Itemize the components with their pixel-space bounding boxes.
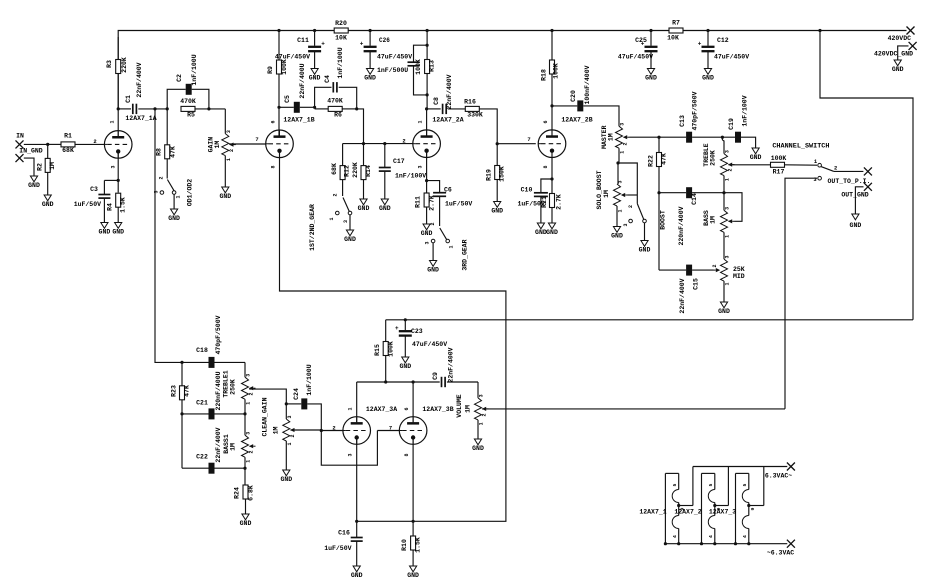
svg-text:8: 8 (404, 453, 410, 456)
op-amp 12AX7_3B triode U3B (399, 406, 453, 444)
potentiometer TREBLE 250K (703, 137, 735, 181)
capacitor C4 (315, 47, 357, 109)
svg-text:C5: C5 (284, 95, 291, 103)
svg-text:3: 3 (343, 220, 349, 223)
svg-text:47uF/450V: 47uF/450V (412, 341, 447, 348)
svg-text:22nF/400U: 22nF/400U (299, 63, 306, 98)
svg-text:220nF/400V: 220nF/400V (678, 206, 685, 245)
svg-text:7: 7 (527, 136, 530, 143)
pin 2 of 12AX7_2A (402, 138, 405, 145)
svg-text:R16: R16 (464, 99, 476, 106)
svg-text:GND: GND (535, 229, 547, 236)
pin 2 of 12AX7_1A (93, 138, 96, 145)
svg-text:1nF/100V: 1nF/100V (395, 173, 426, 180)
op-amp 12AX7_3A triode U3A (343, 406, 397, 444)
node plate 1A / C1 (117, 107, 120, 110)
svg-text:GND: GND (351, 572, 363, 579)
svg-text:1.5K: 1.5K (120, 197, 127, 213)
node C1 out to tone path (153, 107, 156, 110)
svg-text:GND: GND (364, 75, 376, 82)
svg-text:CHANNEL_SWITCH: CHANNEL_SWITCH (772, 143, 829, 151)
svg-text:C19: C19 (728, 118, 735, 130)
svg-text:1nF/100U: 1nF/100U (306, 364, 313, 395)
ground IN_GND (28, 176, 40, 189)
svg-text:R10: R10 (401, 539, 408, 551)
svg-text:1: 1 (725, 282, 731, 285)
svg-text:1: 1 (725, 235, 731, 238)
svg-text:2: 2 (712, 264, 718, 267)
capacitor C12 electrolytic (698, 29, 750, 69)
svg-text:2: 2 (834, 165, 837, 172)
svg-text:R20: R20 (335, 20, 347, 27)
svg-text:GND: GND (358, 205, 370, 212)
capacitor C10 (518, 179, 553, 223)
svg-text:4: 4 (672, 535, 678, 538)
svg-text:2: 2 (249, 392, 255, 395)
svg-text:R3: R3 (106, 60, 113, 68)
capacitor C20 (552, 65, 619, 126)
svg-text:C26: C26 (379, 37, 390, 44)
svg-text:C2: C2 (176, 74, 183, 82)
pin 6 of 12AX7_3B (404, 407, 410, 410)
svg-text:+: + (698, 40, 702, 47)
svg-text:1M: 1M (273, 427, 280, 435)
label 12AX7_2 (674, 509, 701, 516)
wire B+ bus 420VDC rail (118, 31, 906, 109)
resistor R24 (234, 485, 255, 514)
svg-text:GND: GND (750, 154, 762, 161)
svg-text:+: + (395, 325, 399, 332)
svg-text:1: 1 (348, 407, 354, 410)
svg-text:2: 2 (290, 434, 296, 437)
svg-text:1nF/100U: 1nF/100U (337, 47, 344, 78)
wire heater top bus 6.3VAC (693, 467, 787, 506)
svg-text:R24: R24 (234, 487, 241, 499)
label BOOST (660, 210, 667, 230)
capacitor C6 (427, 181, 473, 226)
svg-text:47K: 47K (170, 146, 177, 158)
svg-text:12AX7_3A: 12AX7_3A (366, 406, 397, 413)
ground below CLEAN_GAIN (280, 470, 292, 483)
capacitor C1 (118, 62, 167, 114)
ground below R11 (421, 224, 433, 237)
svg-text:1uF/50V: 1uF/50V (324, 545, 351, 552)
svg-text:100K: 100K (281, 59, 288, 75)
svg-text:47K: 47K (184, 385, 191, 397)
svg-text:R14: R14 (365, 165, 372, 177)
svg-text:5: 5 (708, 483, 714, 486)
wire heater bottom bus (665, 543, 787, 545)
resistor R5 (180, 98, 225, 119)
resistor R2 (37, 144, 57, 195)
node C2/R5/R8 left (166, 107, 169, 110)
capacitor 1nF/500V parallel R13 (377, 45, 427, 95)
svg-text:R6: R6 (334, 112, 342, 119)
svg-text:GND: GND (280, 476, 292, 483)
svg-text:C16: C16 (338, 530, 350, 537)
wire MASTER pin1 to SOLO_BOOST (616, 148, 619, 164)
svg-text:10K: 10K (335, 35, 347, 42)
svg-text:3: 3 (425, 241, 431, 244)
svg-text:2: 2 (402, 138, 405, 145)
wire cathode 3A (355, 438, 358, 538)
wire GAIN wiper to 1B grid (229, 143, 265, 145)
ground below R24 (240, 514, 252, 527)
svg-text:BOOST: BOOST (660, 210, 667, 230)
svg-text:2.7K: 2.7K (429, 195, 436, 211)
wire feed from C1 node down (155, 109, 245, 364)
svg-text:GND: GND (344, 236, 356, 243)
svg-text:47uF/450V: 47uF/450V (618, 54, 653, 61)
heater filament 12AX7_2 (700, 473, 729, 545)
pin 1 of 12AX7_1A (110, 120, 116, 123)
svg-text:2.7K: 2.7K (556, 194, 563, 210)
svg-text:1ST/2ND_GEAR: 1ST/2ND_GEAR (309, 204, 316, 251)
capacitor C11 electrolytic (275, 29, 325, 69)
svg-text:R12: R12 (344, 165, 351, 177)
svg-text:GND: GND (421, 230, 433, 237)
ground below R14 (358, 199, 370, 212)
node plate 2B / C20 (550, 104, 553, 107)
svg-text:3: 3 (623, 223, 629, 226)
pin 2 of 12AX7_3A (332, 425, 335, 432)
svg-text:OD1/OD2: OD1/OD2 (187, 179, 194, 206)
svg-text:6: 6 (271, 120, 277, 123)
wire B+ line y320 (386, 318, 913, 321)
svg-text:25K: 25K (733, 266, 745, 273)
node plate 1B / C5 (277, 106, 280, 109)
svg-text:GND: GND (28, 182, 40, 189)
resistor R7 (667, 20, 683, 42)
svg-text:R21: R21 (541, 196, 548, 208)
svg-text:GND: GND (309, 75, 321, 82)
ground 420VDC_GND (892, 60, 904, 73)
wire TREBLE1 pin1 / C21 line (180, 399, 246, 415)
ground below OD1/OD2 switch (168, 209, 180, 222)
svg-text:C14: C14 (691, 193, 698, 205)
wire TREBLE1 wiper to CLEAN_GAIN (249, 389, 288, 405)
resistor R23 (171, 362, 191, 414)
ground below C19 (750, 148, 762, 161)
svg-text:2: 2 (482, 413, 488, 416)
svg-text:R1: R1 (64, 133, 72, 140)
svg-text:1M: 1M (214, 141, 221, 149)
potentiometer CLEAN_GAIN 1M (262, 397, 297, 445)
svg-text:2: 2 (333, 193, 339, 196)
capacitor C13 (679, 91, 699, 142)
ground below C23 (399, 357, 411, 370)
svg-text:C4: C4 (324, 75, 331, 83)
capacitor C17 (379, 144, 427, 199)
svg-text:22nF/400V: 22nF/400V (215, 427, 222, 462)
svg-text:GND: GND (639, 247, 651, 254)
heater filament 12AX7_1 (664, 473, 693, 545)
svg-text:12AX7_2A: 12AX7_2A (432, 117, 463, 124)
svg-text:1: 1 (418, 120, 424, 123)
resistor R10 (401, 536, 422, 566)
op-amp 12AX7_2B triode U2B (538, 117, 592, 158)
ground below SOLO_BOOST (611, 227, 623, 240)
label 12AX7_3 (709, 509, 736, 516)
terminal 420VDC (888, 27, 915, 43)
wire SOLO_BOOST wiper loop (618, 163, 637, 204)
svg-text:R22: R22 (648, 155, 655, 167)
node R16 out / R19 / 2B grid (496, 142, 536, 145)
svg-text:250K: 250K (230, 379, 237, 395)
svg-text:MID: MID (733, 273, 745, 280)
svg-text:47uF/450V: 47uF/450V (714, 54, 749, 61)
svg-text:3RD_GEAR: 3RD_GEAR (462, 239, 469, 270)
svg-text:5: 5 (672, 483, 678, 486)
wire BASS1 pin1 to R24 (244, 457, 246, 485)
svg-text:GND: GND (718, 308, 730, 315)
resistor R6 (315, 98, 357, 119)
capacitor C8 (427, 74, 465, 114)
svg-text:220K: 220K (352, 162, 359, 178)
capacitor C24 (286, 364, 321, 430)
svg-text:~6.3VAC: ~6.3VAC (767, 550, 794, 557)
svg-text:100K: 100K (553, 63, 560, 79)
svg-text:C15: C15 (693, 278, 700, 290)
svg-text:OUT_TO_P.I.: OUT_TO_P.I. (828, 178, 871, 185)
capacitor C26 electrolytic (360, 29, 412, 69)
svg-text:C12: C12 (717, 37, 729, 44)
svg-text:SOLO_BOOST: SOLO_BOOST (596, 170, 603, 209)
svg-text:GND: GND (472, 445, 484, 452)
svg-text:GND: GND (99, 229, 111, 236)
svg-text:1: 1 (329, 217, 335, 220)
svg-text:GND: GND (407, 572, 419, 579)
wire cathode 3B (412, 438, 415, 537)
pin 3 of 12AX7_3A (348, 453, 354, 456)
svg-text:3: 3 (287, 415, 293, 418)
pin 1 of 12AX7_3A (348, 407, 354, 410)
svg-text:12AX7_2: 12AX7_2 (674, 509, 701, 516)
svg-text:470K: 470K (180, 98, 196, 105)
svg-text:1: 1 (246, 402, 252, 405)
svg-text:C21: C21 (196, 400, 208, 407)
capacitor C2 (167, 54, 209, 109)
svg-text:100K: 100K (388, 341, 395, 357)
resistor R19 (486, 144, 506, 202)
svg-text:TREBLE1: TREBLE1 (223, 370, 230, 397)
pin 6 of 12AX7_2B (543, 120, 549, 123)
svg-text:330K: 330K (467, 112, 483, 119)
resistor R4 (107, 193, 127, 222)
ground below C3 (99, 223, 111, 236)
svg-text:3: 3 (246, 374, 252, 377)
capacitor C5 (279, 63, 315, 112)
ground below R4 (112, 223, 124, 236)
svg-text:6: 6 (543, 120, 549, 123)
switch OD1/OD2 (154, 176, 194, 209)
svg-text:R23: R23 (171, 385, 178, 397)
resistor R22 (648, 137, 668, 193)
ground below C10 (535, 223, 547, 236)
wire B+ right drop to 3rd stage (818, 29, 913, 320)
svg-text:1: 1 (479, 422, 485, 425)
terminal 420VDC_GND (874, 42, 917, 60)
wire plate 3B (412, 382, 414, 422)
resistor R21 (541, 194, 563, 224)
svg-text:4: 4 (708, 535, 714, 538)
pin 3 of 12AX7_2A (418, 165, 424, 168)
ground below 3RD_GEAR switch (427, 261, 439, 274)
switch 1ST/2ND_GEAR (309, 193, 352, 250)
svg-text:12AX7_1: 12AX7_1 (639, 509, 666, 516)
svg-text:22nF/400V: 22nF/400V (136, 62, 143, 97)
wire TREBLE wiper to R17 (729, 164, 771, 166)
wire grid line of 2A (343, 142, 413, 145)
svg-text:2: 2 (430, 222, 436, 225)
svg-text:GND: GND (168, 215, 180, 222)
svg-text:22nF/400V: 22nF/400V (446, 74, 453, 109)
wire CLEAN_GAIN wiper to grids (291, 429, 322, 431)
ground below R10 (407, 566, 419, 579)
svg-text:1M: 1M (465, 405, 472, 413)
wire MID pin1 to ground (723, 281, 725, 302)
svg-text:C18: C18 (196, 347, 208, 354)
potentiometer BASS1 1M (223, 414, 256, 463)
resistor R17 (771, 155, 818, 176)
wire R6 node down to grid line 2A (357, 109, 364, 144)
svg-text:1: 1 (620, 151, 626, 154)
svg-text:R9: R9 (267, 66, 274, 74)
terminal IN_GND (16, 148, 43, 176)
svg-text:GND: GND (427, 267, 439, 274)
svg-text:2: 2 (728, 168, 734, 171)
svg-text:GND: GND (702, 75, 714, 82)
capacitor C16 (324, 530, 363, 567)
svg-text:R2: R2 (37, 163, 44, 171)
resistor R12 (331, 144, 351, 196)
pin 8 of 12AX7_3B (404, 453, 410, 456)
svg-text:3: 3 (348, 453, 354, 456)
svg-text:2: 2 (628, 205, 634, 208)
svg-text:1M: 1M (603, 190, 610, 198)
ground below 1ST/2ND_GEAR switch (344, 230, 356, 243)
potentiometer BASS 1M (703, 207, 735, 238)
svg-text:R13: R13 (429, 60, 436, 72)
svg-text:1: 1 (618, 209, 624, 212)
wire cathode 2A (425, 151, 428, 193)
switch 3RD_GEAR (425, 222, 469, 270)
wire out switch pin3 to volume wiper (785, 178, 817, 409)
svg-text:1uF/50V: 1uF/50V (445, 201, 472, 208)
resistor R1 (48, 133, 105, 155)
svg-text:22nF/400V: 22nF/400V (679, 278, 686, 313)
svg-text:22nF/400V: 22nF/400V (448, 347, 455, 382)
svg-text:C20: C20 (570, 90, 577, 102)
potentiometer GAIN 1M (207, 109, 236, 161)
resistor R13 (415, 29, 436, 109)
svg-text:2: 2 (159, 176, 165, 179)
heater filament 12AX7_3 (734, 473, 764, 545)
svg-text:3: 3 (618, 180, 624, 183)
svg-text:1: 1 (449, 245, 455, 248)
terminal OUT_TO_P.I. (828, 167, 872, 185)
wire VOLUME wiper to out switch (482, 408, 785, 410)
svg-text:470pF/500V: 470pF/500V (215, 315, 222, 354)
op-amp 12AX7_2A triode U2A (413, 117, 464, 158)
svg-text:470pF/500V: 470pF/500V (692, 91, 699, 130)
svg-text:R18: R18 (541, 69, 548, 81)
capacitor C9 (432, 347, 455, 387)
svg-text:3: 3 (725, 255, 731, 258)
svg-text:1M: 1M (49, 162, 56, 170)
wire cathode 1B feed line (280, 151, 506, 521)
svg-text:12AX7_3B: 12AX7_3B (422, 406, 453, 413)
svg-text:1M: 1M (230, 443, 237, 451)
svg-text:1: 1 (176, 195, 182, 198)
pin 8 of 12AX7_1B (271, 165, 277, 168)
svg-text:C13: C13 (679, 115, 686, 127)
potentiometer MID 25K (712, 255, 745, 285)
ground below R21 (546, 223, 558, 236)
ground below R19 (491, 202, 503, 215)
svg-text:2: 2 (229, 149, 235, 152)
svg-text:OUT_GND: OUT_GND (841, 192, 868, 199)
svg-text:R5: R5 (187, 112, 195, 119)
svg-text:R11: R11 (415, 196, 422, 208)
wire TREBLE pin1 to BASS (723, 176, 725, 211)
capacitor C15 (679, 265, 700, 314)
capacitor C22 (196, 427, 222, 473)
svg-text:GND: GND (645, 75, 657, 82)
ground OUT_GND (850, 214, 862, 229)
pin 1 of 12AX7_2A (418, 120, 424, 123)
svg-text:4: 4 (742, 535, 748, 538)
resistor R14 (352, 144, 372, 199)
svg-text:C8: C8 (433, 97, 440, 105)
svg-text:1nF/500U: 1nF/500U (377, 67, 408, 74)
svg-text:GND: GND (42, 201, 54, 208)
svg-text:47uF/450V: 47uF/450V (275, 54, 310, 61)
svg-text:R8: R8 (156, 148, 163, 156)
svg-text:100K: 100K (771, 155, 787, 162)
capacitor C25 electrolytic (618, 29, 658, 69)
svg-text:C25: C25 (635, 37, 647, 44)
pin 3 of 12AX7_1A (111, 165, 117, 168)
svg-text:GND: GND (611, 233, 623, 240)
pin 8 of 12AX7_2B (543, 165, 549, 168)
capacitor C19 (728, 95, 756, 148)
svg-text:1nF/100U: 1nF/100U (191, 54, 198, 85)
svg-text:1.5K: 1.5K (415, 537, 422, 553)
svg-text:2: 2 (249, 450, 255, 453)
svg-text:9: 9 (750, 507, 756, 510)
svg-text:7: 7 (255, 136, 258, 143)
svg-text:47uF/450V: 47uF/450V (377, 54, 412, 61)
ground below C12 (702, 69, 714, 82)
svg-text:C6: C6 (444, 187, 452, 194)
ground below solo boost switch (639, 241, 651, 254)
potentiometer TREBLE1 250K (223, 362, 256, 404)
svg-text:2: 2 (93, 138, 96, 145)
ground below C26 (364, 69, 376, 82)
svg-text:C11: C11 (297, 37, 309, 44)
wire plate 3A (356, 382, 358, 422)
ground below C16 (351, 566, 363, 579)
svg-text:1: 1 (110, 120, 116, 123)
svg-text:1nF/100V: 1nF/100V (742, 95, 749, 126)
svg-text:IN_GND: IN_GND (19, 148, 43, 155)
terminal IN (16, 133, 48, 149)
resistor R11 (415, 193, 436, 224)
wire plate 2A (425, 107, 428, 136)
svg-text:47K: 47K (661, 153, 668, 165)
svg-text:12AX7_3: 12AX7_3 (709, 509, 736, 516)
